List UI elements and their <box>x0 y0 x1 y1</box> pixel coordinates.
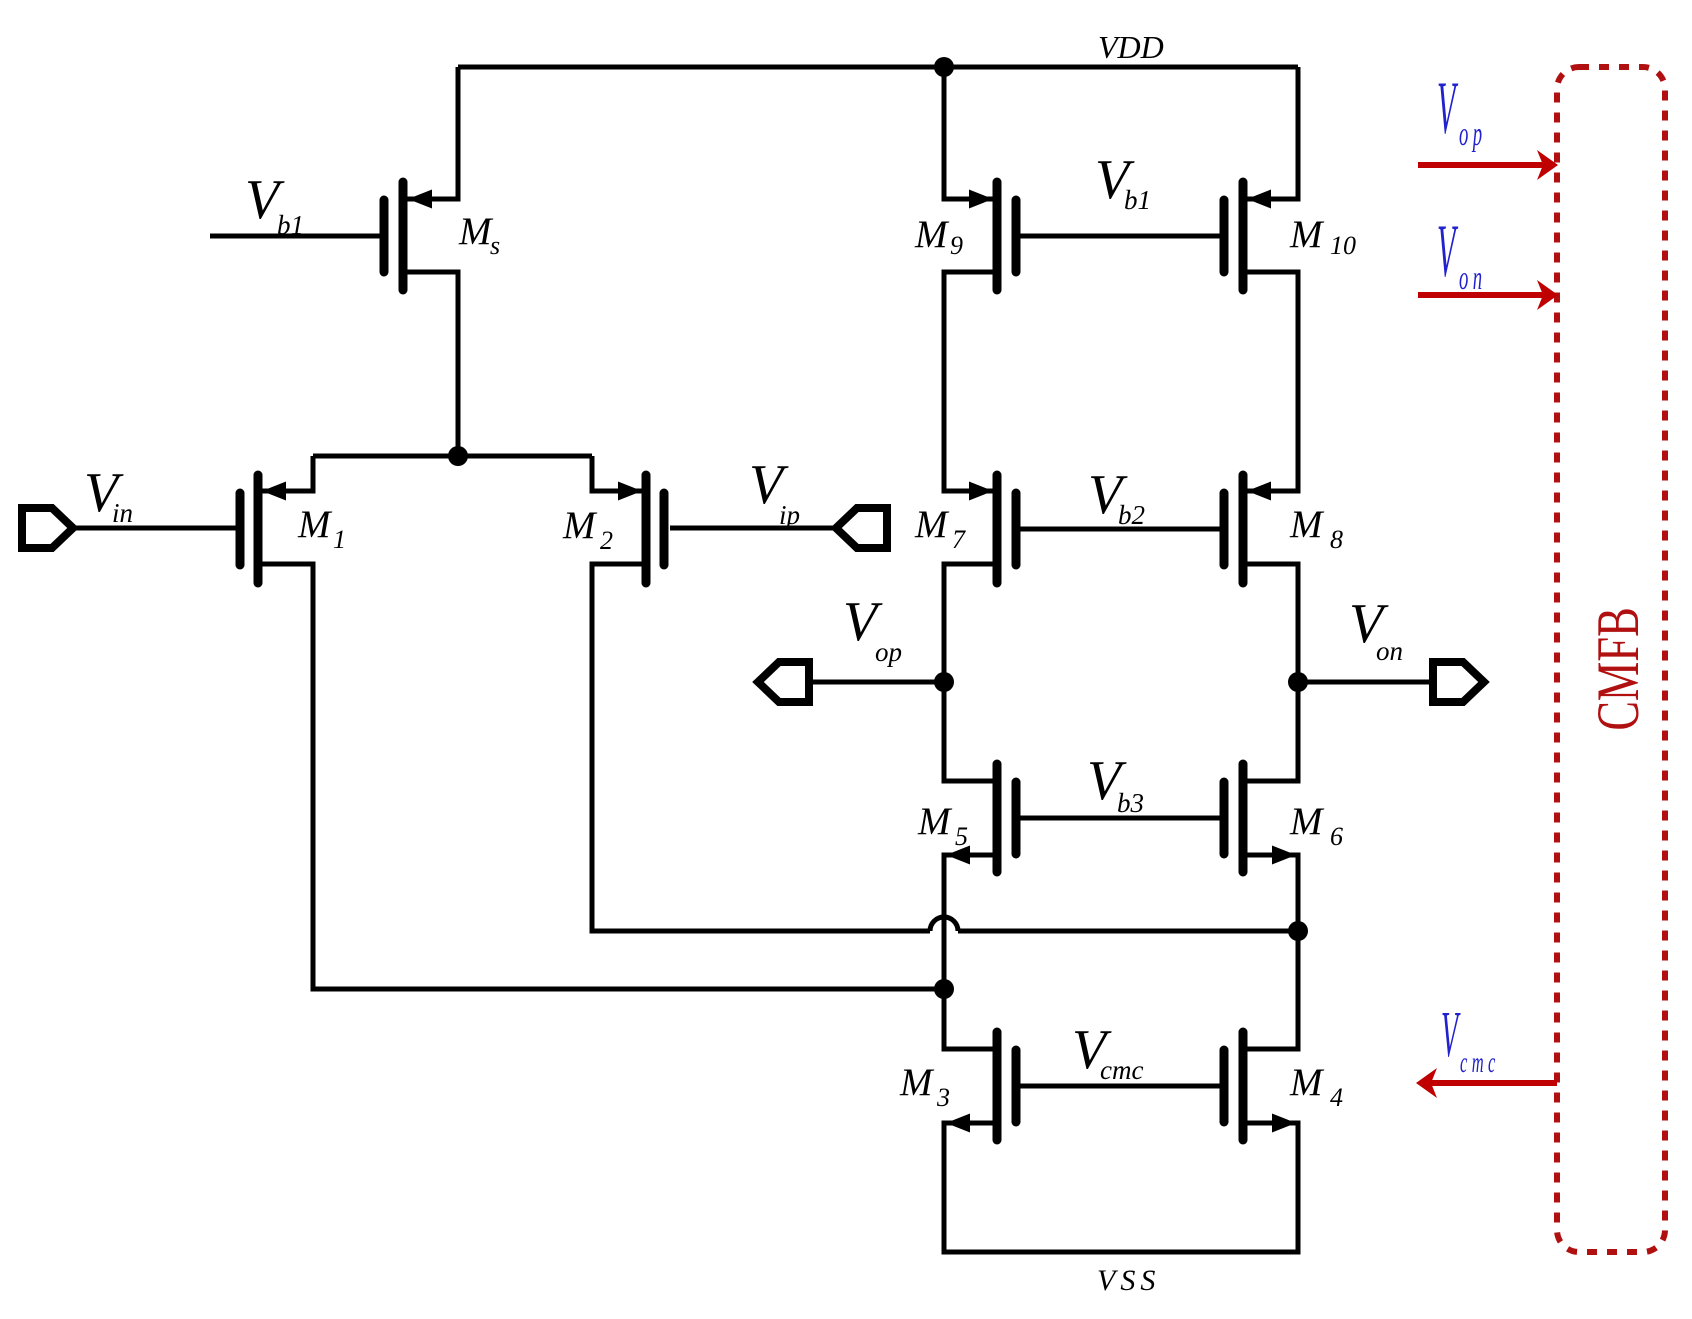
svg-text:4: 4 <box>1330 1083 1343 1112</box>
svg-text:3: 3 <box>936 1083 950 1112</box>
svg-text:CMFB: CMFB <box>1586 607 1652 730</box>
svg-text:M: M <box>899 1061 935 1104</box>
svg-text:M: M <box>917 800 953 843</box>
svg-text:7: 7 <box>952 525 966 554</box>
svg-text:V: V <box>1437 67 1459 150</box>
svg-text:b1: b1 <box>1124 185 1151 215</box>
svg-text:b1: b1 <box>277 210 304 240</box>
svg-text:M: M <box>914 213 950 256</box>
svg-text:VDD: VDD <box>1098 29 1164 65</box>
svg-text:V: V <box>1437 210 1459 293</box>
svg-text:9: 9 <box>950 231 963 260</box>
svg-text:1: 1 <box>333 525 346 554</box>
svg-text:M: M <box>1289 1061 1325 1104</box>
svg-text:M: M <box>914 503 950 546</box>
svg-text:10: 10 <box>1330 231 1356 260</box>
svg-text:VSS: VSS <box>1097 1264 1160 1297</box>
svg-text:M: M <box>1289 503 1325 546</box>
svg-text:8: 8 <box>1330 525 1343 554</box>
svg-text:cmc: cmc <box>1460 1046 1500 1079</box>
svg-text:M: M <box>297 503 333 546</box>
svg-text:op: op <box>1459 115 1486 152</box>
svg-text:ip: ip <box>779 500 800 530</box>
svg-text:6: 6 <box>1330 822 1343 851</box>
svg-text:s: s <box>490 231 500 260</box>
svg-text:b3: b3 <box>1117 788 1144 818</box>
svg-text:M: M <box>1289 800 1325 843</box>
svg-text:cmc: cmc <box>1100 1055 1143 1085</box>
svg-text:op: op <box>875 637 902 667</box>
svg-text:5: 5 <box>955 822 968 851</box>
svg-text:on: on <box>1376 636 1403 666</box>
svg-text:2: 2 <box>600 526 613 555</box>
svg-text:M: M <box>562 504 598 547</box>
svg-text:V: V <box>1441 997 1461 1070</box>
svg-text:M: M <box>1289 213 1325 256</box>
svg-text:b2: b2 <box>1118 500 1145 530</box>
svg-text:on: on <box>1459 259 1486 296</box>
svg-text:in: in <box>112 498 133 528</box>
svg-text:M: M <box>458 210 494 253</box>
